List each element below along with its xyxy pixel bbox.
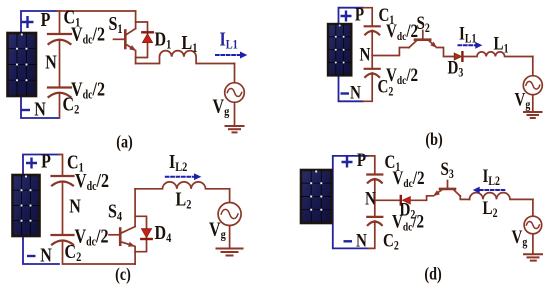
svg-text:Vdc/2: Vdc/2 [386,64,418,87]
svg-text:P: P [41,150,51,172]
svg-text:D4: D4 [155,221,172,245]
svg-text:IL2: IL2 [169,150,187,174]
emitter arrowhead S2 (b) [430,42,437,48]
svg-text:L2: L2 [483,197,498,220]
svg-text:Vdc/2: Vdc/2 [71,23,105,47]
wire: C2 to bottom rail and S4 emitter (c) [63,241,136,265]
wire: L1 to grid source Vg (b) [532,57,534,76]
labels subfigure (c) [26,150,226,285]
solar panel PV (d) [301,170,332,223]
wire: S2 emitter to D3 (b) [437,48,454,57]
labels subfigure (b) [341,4,531,149]
wire: node N to S2 step (b) [372,48,409,56]
svg-text:N: N [356,230,367,251]
svg-text:Vg: Vg [515,89,531,112]
emitter arrowhead S3 (d) [433,190,440,196]
AC grid source Vg (c) [218,203,241,249]
svg-text:Vdc/2: Vdc/2 [386,20,418,43]
wire: node N column between C1 and C2 (d) [374,179,376,217]
svg-text:IL1: IL1 [220,28,238,52]
capacitor C1 (a) [48,34,71,44]
svg-text:D1: D1 [155,28,172,52]
ground symbol (b) [524,112,542,118]
inductor L1 (b) [462,52,532,57]
AC grid source Vg (a) [225,83,245,126]
svg-text:Vg: Vg [209,218,226,242]
label minus (d) [344,240,353,242]
current arrow IL1 (a) [216,52,247,59]
wire: top rail to capacitor column (b) [363,8,372,27]
svg-text:L1: L1 [182,31,198,55]
current arrow IL1 (b) [459,42,483,49]
wire: PV positive lead to top rail (blue), subfig a [21,11,57,33]
solar panel PV (b) [328,24,351,75]
diode D1 branch wires (a) [136,22,148,58]
wire: node N column between C1 and C2 (b) [371,31,373,69]
transistor S2 IGBT horizontal (b) [409,31,435,48]
solar panel PV (a) [8,33,37,96]
wire: node N to D2 (d) [375,199,400,201]
solar panel PV (c) [13,175,40,236]
diode D4 (c) [141,229,151,239]
wire: D2 to S3 step (d) [411,196,434,201]
labels subfigure (a) [21,6,238,152]
svg-text:P: P [357,149,366,170]
ground symbol (d) [524,254,542,260]
label minus (b) [341,92,350,94]
wire: node N column between C1 and C2 (c) [62,182,64,236]
wire: C2 to bottom rail (b) [363,73,372,101]
label minus (a) [21,109,30,111]
svg-text:Vdc/2: Vdc/2 [393,167,425,190]
label + (d) [342,157,353,168]
emitter arrowhead S1 (a) [129,45,136,51]
svg-text:S3: S3 [441,158,455,181]
transistor S4 IGBT (c) [109,189,135,264]
inductor L2 (c) [135,182,230,189]
label + (c) [26,158,37,169]
current arrow IL2 (d) [473,187,505,194]
transistor S3 IGBT horizontal (d) [435,181,460,196]
wire: C2 to bottom rail (a) [59,93,61,118]
AC grid source Vg (d) [524,216,542,254]
capacitor C2 (b) [365,69,380,77]
labels subfigure (d) [342,149,528,283]
svg-text:C2: C2 [383,230,399,253]
current arrow IL2 (c) [166,173,202,180]
svg-text:(b): (b) [425,131,442,150]
inductor L2 (d) [470,193,533,200]
svg-text:N: N [365,188,376,209]
wire: L2 to grid source Vg (d) [532,199,534,216]
wire: top rail to capacitor column (d) [368,156,375,175]
label + (a) [22,16,34,28]
svg-text:L2: L2 [176,188,192,212]
wire: S3 to L2 step (d) [460,196,470,200]
capacitor C1 (b) [365,26,380,34]
emitter arrowhead S4 (c) [128,242,135,247]
wire: top rail to capacitor column (c) [59,155,63,177]
diode D1 (a) [142,32,152,42]
svg-text:N: N [360,44,371,65]
diode D4 branch wires (c) [135,216,146,251]
capacitor C2 (d) [367,217,382,225]
svg-text:P: P [355,4,364,25]
label + (b) [341,11,352,22]
wire: top rail from P node to S1 collector (a) [57,10,136,12]
transistor S1 IGBT (a) [114,11,136,64]
capacitor C2 (a) [48,88,71,98]
wire: PV loop left/top/bottom (blue), subfig b [339,8,364,102]
svg-text:(d): (d) [424,265,441,284]
wire: capacitor column (a) [59,11,61,34]
svg-text:Vdc/2: Vdc/2 [75,169,109,193]
svg-text:L1: L1 [494,33,509,56]
wire: L2 to grid source Vg (c) [229,189,231,203]
svg-text:S1: S1 [109,12,123,36]
capacitor C1 (c) [52,176,74,186]
inductor L1 (a) [136,51,235,64]
svg-text:(a): (a) [116,133,133,152]
svg-text:S2: S2 [417,12,431,35]
label minus (c) [27,255,36,257]
svg-text:Vdc/2: Vdc/2 [75,225,109,249]
wire: C2 to bottom rail (d) [368,221,375,248]
capacitor C1 (d) [367,175,382,183]
svg-text:(c): (c) [115,266,131,285]
diode D3 (b) [454,52,462,61]
svg-text:IL2: IL2 [483,165,501,188]
capacitor C2 (c) [52,235,74,245]
wire: node N column between C1 and C2 (a) [59,40,61,88]
svg-text:Vdc/2: Vdc/2 [71,78,105,102]
svg-text:IL1: IL1 [459,23,477,46]
diode D2 (d) [401,196,411,205]
svg-text:S4: S4 [108,200,122,224]
ground symbol (a) [226,126,244,132]
svg-text:P: P [41,8,51,30]
wire: PV negative lead to bottom rail (blue), subfig a [21,96,59,118]
wire: PV loop left/top/bottom (blue), subfig c [23,155,59,265]
svg-text:N: N [40,244,52,266]
ground symbol (c) [217,249,243,256]
svg-text:N: N [69,195,81,217]
svg-text:N: N [34,98,46,120]
wire: PV loop left/top/bottom (blue), subfig d [333,156,368,249]
svg-text:N: N [45,51,57,73]
svg-text:N: N [350,82,361,103]
AC grid source Vg (b) [523,76,542,112]
wire: L1 to grid source Vg (a) [234,64,236,83]
